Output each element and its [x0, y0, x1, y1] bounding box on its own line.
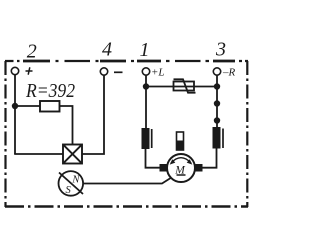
wire resistor to corner — [60, 106, 73, 145]
motor rotation arrows — [171, 158, 191, 163]
wire terminal 3 down — [216, 76, 218, 128]
svg-text:2: 2 — [27, 41, 37, 63]
svg-text:+L: +L — [151, 66, 165, 78]
wire fuse link line — [146, 86, 217, 88]
terminal 4 circle — [100, 68, 107, 75]
junction node terminal 3 / fuse — [214, 83, 220, 89]
thermal fuse body — [174, 82, 195, 91]
thermal fuse actuator stroke — [174, 79, 196, 92]
svg-text:1: 1 — [140, 39, 150, 61]
resistor R=392 body — [40, 101, 60, 112]
wire terminal 1 down — [145, 76, 147, 129]
suppression choke right (black body) — [213, 127, 221, 149]
svg-text:R=392: R=392 — [25, 81, 75, 102]
svg-text:S: S — [66, 185, 72, 196]
magnet sensor circle — [59, 171, 84, 196]
label - at terminal 4 — [114, 71, 123, 73]
third brush body — [177, 132, 184, 150]
capacitor plate line left choke — [151, 129, 153, 148]
boundary frame left side — [4, 61, 6, 207]
junction node below terminal 2 — [12, 103, 18, 109]
svg-text:–R: –R — [222, 66, 236, 78]
capacitor plate line right choke — [222, 129, 224, 149]
magnet sensor diagonal bar — [59, 173, 83, 195]
terminal 1 circle — [142, 68, 149, 75]
junction node middle right column — [214, 100, 220, 106]
junction node lower right column — [214, 117, 220, 123]
boundary frame top dash-dot line — [5, 60, 248, 62]
boundary frame label underline dashes — [23, 60, 235, 63]
motor right brush — [196, 164, 203, 172]
svg-text:3: 3 — [215, 39, 226, 61]
wire junction to resistor — [15, 105, 40, 107]
terminal 3 circle — [213, 68, 220, 75]
wire lower branch to lamp — [14, 153, 63, 155]
magnet sensor wire to motor — [83, 177, 173, 184]
indicator lamp box with X — [63, 145, 82, 164]
third brush contact (filled half) — [177, 141, 184, 151]
motor M1 circle — [167, 154, 195, 182]
junction node below terminal 1 — [143, 83, 149, 89]
wire right choke to right brush — [202, 149, 217, 168]
boundary frame right side — [246, 61, 248, 207]
wire lamp to terminal 4 — [82, 76, 104, 155]
motor letter underline — [177, 174, 186, 176]
wire left choke to left brush — [146, 149, 160, 168]
wire terminal 2 down — [14, 75, 16, 154]
label + at terminal 2 — [26, 67, 33, 74]
boundary frame bottom side — [5, 205, 248, 207]
suppression choke left (black body) — [142, 128, 150, 149]
svg-text:4: 4 — [102, 39, 112, 61]
motor left brush — [160, 164, 167, 172]
svg-text:N: N — [71, 174, 80, 185]
terminal 2 circle — [11, 67, 18, 74]
